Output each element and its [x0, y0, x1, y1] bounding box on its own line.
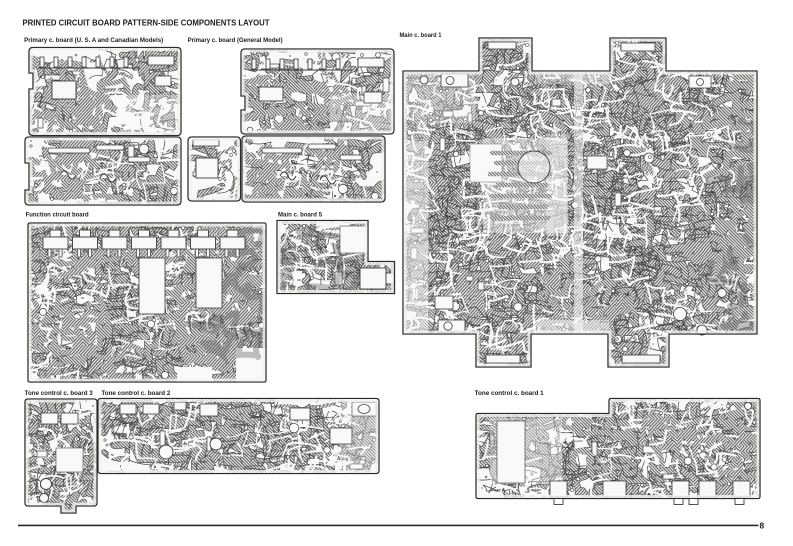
Main c. board 5 dark figures — [263, 227, 391, 307]
Primary c. board (U.S.A) top section outline — [29, 48, 181, 136]
svg-text:Main c. board 1: Main c. board 1 — [400, 33, 443, 39]
Tone control c. board 2 pot circle — [159, 445, 173, 459]
svg-text:Tone control c. board 3: Tone control c. board 3 — [25, 391, 94, 397]
Primary c. board (General) sub-board transformer 54001 — [196, 158, 218, 178]
Primary c. board (General) bottom section outline — [242, 136, 385, 202]
Main c. board 1 white rect center — [587, 156, 607, 169]
Main c. board 1 copper traces — [370, 5, 793, 395]
Primary c. board (General) light right zone — [330, 95, 394, 134]
Function circuit board outline — [28, 223, 266, 382]
Main c. board 1 outline — [403, 38, 757, 367]
Primary c. board (U.S.A) bottom section outline — [25, 137, 181, 205]
Function circuit board IC FM304 — [196, 258, 222, 308]
Tone control c. board 3 jacks — [41, 479, 52, 490]
Primary c. board (U.S.A) copper traces (top) — [8, 37, 201, 151]
Tone control c. board 3 outline — [25, 399, 97, 513]
Primary c. board (General) transformer sub-board outline — [188, 137, 241, 201]
Tone control c. board 1 copper traces — [446, 371, 792, 523]
svg-text:Tone control c. board 1: Tone control c. board 1 — [475, 391, 545, 397]
Main c. board 1 light strips near tab gaps — [534, 71, 609, 334]
Primary c. board (General) copper traces (top) — [202, 21, 418, 177]
Main c. board 1 white circles bottom-right — [674, 308, 687, 321]
Main c. board 1 light channel — [574, 71, 583, 334]
Main c. board 1 dark bottom-center patch — [530, 259, 634, 343]
Main c. board 1 IC bottom-left — [435, 296, 453, 309]
Main c. board 1 light top-left zone — [403, 71, 475, 334]
Main c. board 1 capacitor circle outline — [518, 151, 550, 183]
Primary c. board (General) transformer T7600 rect — [259, 87, 283, 101]
Primary c. board (General) transistor row — [250, 59, 352, 70]
Primary c. board (General) transformer sub-board traces — [188, 127, 278, 215]
Main c. board 1 light center-left zone — [470, 134, 568, 236]
Primary c. board (General) ribbon cables (bottom) — [262, 144, 362, 184]
Primary c. board (General) top section outline — [241, 49, 394, 134]
svg-text:Primary c. board (General Mode: Primary c. board (General Model) — [188, 38, 283, 44]
svg-text:Main c. board 5: Main c. board 5 — [278, 213, 323, 219]
Tone control c. board 1 bottom connector boxes — [550, 481, 750, 505]
Primary c. board (U.S.A) upper-right connector block — [148, 56, 174, 86]
Tone control c. board 1 outline — [476, 399, 760, 499]
svg-text:Tone control c. board 2: Tone control c. board 2 — [101, 391, 171, 397]
Primary c. board (U.S.A) dense left zone — [27, 58, 142, 146]
Primary c. board (General) upper-right connector — [358, 58, 384, 103]
svg-text:Primary c. board (U. S. A and: Primary c. board (U. S. A and Canadian M… — [24, 38, 163, 44]
Function circuit board white cut-outs bottom-right — [177, 223, 266, 382]
Primary c. board (U.S.A) dense bottom-left — [20, 147, 135, 207]
Function circuit board copper traces — [0, 192, 307, 409]
Main c. board 1 motor cap (rect with circle) bottom-left — [438, 320, 465, 332]
svg-text:PRINTED CIRCUIT BOARD PATTERN-: PRINTED CIRCUIT BOARD PATTERN-SIDE COMPO… — [23, 19, 270, 28]
page footer rule — [18, 524, 759, 526]
Main c. board 1 screw hole top-left — [420, 76, 428, 84]
Tone control c. board 1 light left zone with window — [490, 418, 562, 484]
Function circuit board dark central mass — [188, 228, 280, 357]
Tone control c. board 1 top-right hole — [745, 403, 752, 410]
Tone control c. board 2 connector blocks — [120, 402, 352, 444]
Primary c. board (U.S.A) transistor row — [38, 57, 140, 68]
Tone control c. board 2 screw hole top-right — [352, 402, 376, 416]
Main c. board 1 horizontal trace fingers — [490, 153, 550, 218]
Tone control c. board 2 copper traces — [76, 373, 405, 504]
Function circuit board dense right zone — [156, 235, 305, 371]
Function circuit board dense connector band — [42, 215, 295, 282]
Function circuit board dense bottom-left zone — [0, 298, 110, 403]
Primary c. board (General) copper traces (bottom) — [219, 110, 423, 215]
Primary c. board (U.S.A) power transformer T7600 — [52, 81, 76, 99]
Primary c. board (U.S.A) copper traces (bottom) — [0, 110, 200, 228]
Main c. board 5 white zone top-right — [340, 226, 368, 253]
Main c. board 1 extra dense right band — [706, 61, 789, 326]
Tone control c. board 3 copper traces — [0, 372, 136, 544]
svg-text:8: 8 — [760, 521, 765, 531]
Primary c. board (U.S.A) light right zone — [120, 95, 181, 135]
Main c. board 1 screw hole top-right — [689, 76, 711, 88]
Main c. board 5 outline — [277, 221, 395, 294]
Tone control c. board 2 light right zone — [340, 399, 379, 473]
Main c. board 1 dark right band reinforcement — [708, 117, 788, 346]
Main c. board 1 fuse holder (white rect with circle) — [441, 74, 468, 87]
Primary c. board (U.S.A) ribbon cables (bottom) — [48, 145, 150, 182]
Tone control c. board 1 dense right zone — [563, 396, 780, 508]
Tone control c. board 3 connectors top — [41, 413, 78, 424]
Primary c. board (General) dense bottom-left — [245, 151, 339, 217]
Main c. board 5 copper traces — [261, 185, 424, 328]
Main c. board 1 connector strips in tabs — [488, 42, 516, 49]
Tone control c. board 3 white window — [56, 448, 83, 472]
Primary c. board (General) sub-board top connector — [193, 140, 219, 146]
Main c. board 5 connector box bottom-right — [360, 268, 394, 289]
Tone control c. board 2 outline — [98, 399, 379, 474]
Function circuit board switch connectors row — [43, 230, 245, 257]
svg-text:Function circuit board: Function circuit board — [26, 212, 89, 218]
Primary c. board (General) dense left zone — [229, 77, 350, 135]
Function circuit board IC FM303 — [139, 258, 165, 314]
